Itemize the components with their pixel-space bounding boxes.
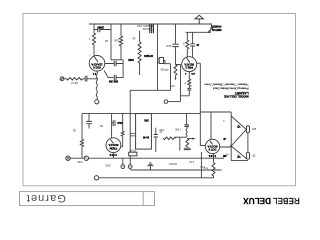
svg-text:Garnet: Garnet <box>26 192 66 204</box>
node G2 <box>164 100 168 104</box>
capacitor C9 <box>88 114 90 129</box>
svg-text:8 4 5 6: 8 4 5 6 <box>109 153 117 156</box>
svg-text:6.3V: 6.3V <box>189 160 194 163</box>
svg-text:2W: 2W <box>222 154 226 156</box>
ground chassis top <box>195 15 203 24</box>
svg-text:1M: 1M <box>105 39 108 42</box>
tube V2 6EU7 <box>182 57 197 72</box>
wire osc feed <box>157 24 159 90</box>
trimmer C2 <box>159 58 163 64</box>
bottom rail <box>94 176 98 180</box>
svg-text:478: 478 <box>191 72 195 75</box>
svg-text:150K: 150K <box>128 58 134 61</box>
resistor R8 cathode <box>181 72 190 96</box>
resistor R13 <box>201 152 213 178</box>
svg-text:B+40: B+40 <box>142 135 149 138</box>
svg-text:SP: SP <box>252 154 256 157</box>
fuse F1 <box>129 152 137 156</box>
tube V1 12AX7 <box>89 56 105 72</box>
svg-text:LA120RT: LA120RT <box>235 91 249 95</box>
svg-text:+B: +B <box>223 137 226 139</box>
capacitor C4 <box>192 33 194 58</box>
input jack J1 <box>60 77 64 81</box>
svg-text:10K: 10K <box>144 118 149 121</box>
svg-text:POT: POT <box>169 84 174 86</box>
resistor R1 <box>93 24 95 56</box>
wire right rail <box>200 112 231 161</box>
svg-text:7: 7 <box>181 54 183 56</box>
capacitor C13 <box>184 148 191 149</box>
wire coupling node <box>122 60 124 78</box>
wire plate V2 <box>199 63 201 145</box>
svg-text:EXT: EXT <box>251 127 256 130</box>
svg-text:PRE 2: PRE 2 <box>185 65 193 69</box>
capacitor C6 <box>105 63 123 65</box>
resistor R2 1M <box>111 24 123 60</box>
resistor R4 <box>139 31 141 75</box>
tube V3 <box>106 138 121 153</box>
capacitor C10 <box>112 122 113 124</box>
capacitor C5 <box>83 78 98 80</box>
svg-text:4uF: 4uF <box>164 68 169 70</box>
capacitor C7 <box>104 71 123 78</box>
resistor R7 input <box>67 78 83 80</box>
svg-text:40: 40 <box>196 43 199 46</box>
wire V3 grid <box>111 114 113 138</box>
resistor R3 <box>120 24 122 60</box>
footswitch jacks <box>66 156 70 160</box>
svg-text:INPUT: INPUT <box>70 81 78 84</box>
svg-text:OSC 5: OSC 5 <box>93 66 101 70</box>
svg-text:20uF: 20uF <box>166 44 172 47</box>
svg-text:470K: 470K <box>159 128 165 131</box>
wire osc rail <box>130 90 170 113</box>
wire B+ bus <box>89 23 212 25</box>
svg-text:8 4 5 6: 8 4 5 6 <box>208 154 216 157</box>
svg-text:20uF: 20uF <box>117 121 123 124</box>
svg-text:50K: 50K <box>174 128 179 131</box>
resistor R12 <box>186 139 189 147</box>
svg-text:INTENS: INTENS <box>144 54 153 57</box>
heater wires <box>131 169 222 171</box>
svg-text:MODEL DELUXE: MODEL DELUXE <box>224 94 249 98</box>
svg-text:Preamp,Driver,Vibrato,Oscil.: Preamp,Driver,Vibrato,Oscil. <box>212 87 249 91</box>
svg-text:5Y3: 5Y3 <box>203 166 208 169</box>
ground power <box>147 163 153 170</box>
svg-text:R: R <box>183 42 185 44</box>
capacitor C3 20uF <box>175 24 177 65</box>
svg-text:250K: 250K <box>98 25 104 28</box>
svg-text:POWER: POWER <box>212 24 221 27</box>
speaker wires <box>231 116 246 158</box>
svg-text:SWITCH: SWITCH <box>212 28 222 31</box>
svg-text:115VAC: 115VAC <box>168 162 177 165</box>
resistor R5 <box>174 65 177 76</box>
resistor R9 <box>81 114 83 159</box>
wire lower rail <box>82 113 200 115</box>
resistor R6 <box>186 33 188 58</box>
svg-text:20K: 20K <box>160 68 165 70</box>
switch S1 <box>186 24 212 32</box>
svg-text:150K: 150K <box>77 160 83 163</box>
Garnet logo box <box>20 192 155 206</box>
svg-text:VIBRATO OSC: VIBRATO OSC <box>137 24 153 27</box>
jack J3 spk <box>246 152 249 159</box>
svg-text:TREM: TREM <box>110 146 117 150</box>
svg-text:68K 2W: 68K 2W <box>108 80 118 83</box>
transformer T2 box <box>129 114 131 153</box>
tube V4 <box>200 112 231 147</box>
wire grid V2 <box>180 65 182 102</box>
node G1 <box>95 100 99 104</box>
svg-text:4: 4 <box>184 72 186 75</box>
jack J2 ext <box>246 126 249 133</box>
capacitor C8 <box>187 88 191 90</box>
capacitor C1 <box>94 29 111 31</box>
border frame <box>23 14 296 186</box>
resistor R10 <box>121 114 123 147</box>
svg-text:1M: 1M <box>132 36 135 38</box>
wire grid shield <box>96 72 97 100</box>
capacitor C11 <box>130 133 135 136</box>
svg-text:REBEL DELUX: REBEL DELUX <box>243 196 300 205</box>
svg-text:1M: 1M <box>73 129 76 132</box>
svg-text:FUSE: FUSE <box>129 148 136 150</box>
coil T1 <box>150 25 154 34</box>
svg-text:#1: #1 <box>226 152 229 154</box>
tremolo junction <box>186 114 188 125</box>
svg-text:A: A <box>88 37 90 40</box>
AC plug <box>121 165 125 169</box>
svg-text:100K: 100K <box>105 164 111 167</box>
svg-text:1M: 1M <box>100 124 103 127</box>
svg-text:3K: 3K <box>183 82 186 84</box>
svg-text:C: C <box>89 53 91 55</box>
svg-text:OUT 6: OUT 6 <box>208 147 216 151</box>
svg-text:"Vibrato","Tremolo","Reverb",T: "Vibrato","Tremolo","Reverb",Trem <box>204 83 249 87</box>
capacitor C12 <box>155 128 157 152</box>
svg-text:1: 1 <box>85 74 87 76</box>
svg-text:220K: 220K <box>113 39 119 41</box>
svg-text:4: 4 <box>223 119 225 122</box>
svg-text:2 1: 2 1 <box>92 72 96 74</box>
